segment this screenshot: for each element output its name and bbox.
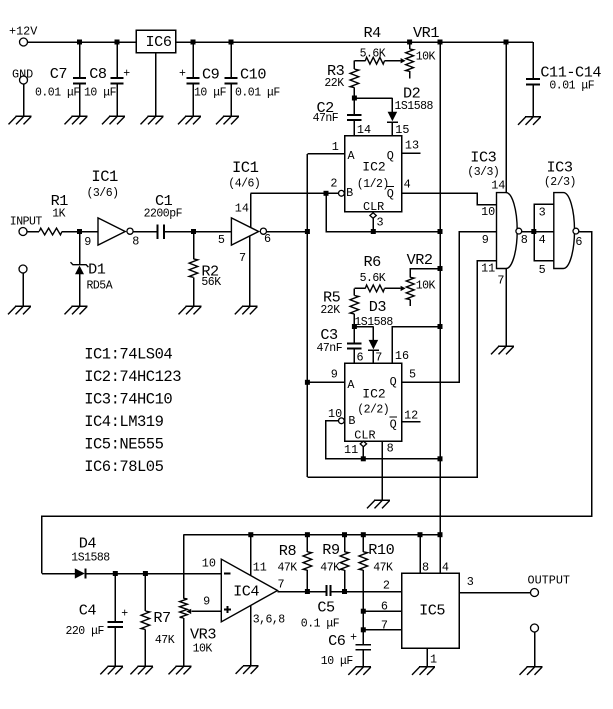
wire +12V rail (IC6 output side) [176,41,534,43]
svg-text:Q: Q [387,149,394,163]
svg-text:6: 6 [575,235,582,249]
svg-text:(2/2): (2/2) [357,403,389,416]
svg-text:RD5A: RD5A [87,280,113,293]
junction high rail/+12V vertical [438,229,443,234]
svg-text:6: 6 [381,600,388,614]
resistor R1 zigzag [39,228,62,235]
wire IC6 ground pin [155,53,157,117]
svg-text:+: + [350,632,357,645]
ground (IC1 pin 7) [235,306,258,314]
svg-text:B: B [346,186,353,200]
wire IC3 pin 7 to ground [505,269,507,347]
svg-text:10: 10 [481,205,495,219]
wire IC5 pin 3 to OUTPUT [459,592,530,594]
svg-text:VR2: VR2 [407,251,433,269]
wire IC5 pin 8 (Vcc) [419,535,421,573]
svg-text:4: 4 [404,178,411,192]
svg-text:22K: 22K [324,77,344,90]
svg-text:2: 2 [330,176,337,190]
svg-text:Q: Q [390,375,397,389]
svg-text:IC2: IC2 [362,387,385,402]
ground (IC4 pins 3,6,8) [236,666,259,674]
junction +12V vertical/top rail [438,40,443,45]
wire INPUT to R1 [27,231,39,233]
svg-text:2: 2 [383,579,390,593]
svg-text:22K: 22K [320,304,340,317]
svg-text:0.01 μF: 0.01 μF [549,80,594,93]
svg-text:13: 13 [405,139,419,153]
terminal +12V [20,38,28,46]
IC3 (3/3) output bubble [516,228,522,234]
wire GND terminal down [23,84,25,116]
junction IC4 pin11/+12V rail [248,532,253,537]
svg-text:(2/3): (2/3) [544,176,576,189]
wire +12V to IC6 input [28,41,136,43]
svg-text:10K: 10K [416,51,436,64]
svg-text:47nF: 47nF [317,342,343,355]
svg-text:C5: C5 [317,599,335,617]
svg-text:C4: C4 [79,602,97,620]
wire B pin 10 tie-high [326,421,440,459]
svg-text:R6: R6 [364,253,382,271]
svg-text:IC1: IC1 [232,159,259,177]
junction C4 node [113,571,118,576]
svg-text:IC1: IC1 [91,168,118,186]
svg-text:A: A [347,378,355,392]
svg-text:IC6:78L05: IC6:78L05 [84,458,163,476]
svg-text:R9: R9 [322,541,340,559]
IC2 pin 2 bubble (B) [339,190,345,196]
svg-text:R10: R10 [368,541,394,559]
ground (C4) [100,666,123,674]
svg-text:IC1:74LS04: IC1:74LS04 [84,345,172,363]
svg-text:10 μF: 10 μF [194,87,227,100]
IC4 input polarity marks [224,573,231,575]
junction C1/R2/IC1 input [191,229,196,234]
svg-text:56K: 56K [201,276,221,289]
svg-text:16: 16 [395,349,409,363]
svg-text:OUTPUT: OUTPUT [528,574,570,588]
svg-text:14: 14 [491,179,505,193]
wire IC4 pins 3,6,8 to ground [250,606,252,666]
wire C1 to IC1 (4/6) input [165,231,231,233]
svg-text:6: 6 [357,350,364,364]
ground (IC6) [141,116,164,124]
terminal INPUT [19,228,27,236]
ground (input terminal) [8,306,31,314]
ground (GND terminal) [9,116,32,124]
capacitor C7 [79,42,81,77]
svg-text:10 μF: 10 μF [84,87,117,100]
svg-text:+: + [121,608,128,621]
IC1 (4/6) output bubble [260,228,266,234]
svg-text:Q: Q [390,418,397,432]
svg-text:D3: D3 [369,298,387,316]
svg-text:9: 9 [203,595,210,609]
svg-text:C7: C7 [50,65,67,83]
svg-text:11: 11 [344,443,358,457]
ground (VR3) [169,666,192,674]
capacitor C8 [116,42,118,77]
svg-text:0.01 μF: 0.01 μF [235,87,280,100]
junction C10/rail [229,40,234,45]
wire D4 cathode to IC4 minus input [86,573,222,575]
junction R10 top/+12V rail [361,532,366,537]
terminal OUTPUT [531,589,539,597]
svg-text:47K: 47K [320,562,340,575]
svg-text:1S1588: 1S1588 [71,551,110,564]
svg-text:15: 15 [395,123,409,137]
IC2 pin 12 stub (Q-bar) [402,421,421,423]
wire +12V bottom rail [184,534,441,536]
junction pin 8/+12V rail [418,532,423,537]
junction CLR/tie-high rail [361,456,366,461]
svg-text:IC2: IC2 [362,160,385,175]
svg-text:3: 3 [539,206,546,220]
wire IC2 pin 8 (GND) [381,441,383,500]
svg-text:4: 4 [442,561,449,575]
svg-text:10K: 10K [193,642,213,655]
wire output ground terminal down [534,632,536,666]
ground (C11-C14) [518,117,541,125]
svg-text:8: 8 [387,442,394,456]
ground (output terminal) [520,667,543,675]
svg-text:IC5:NE555: IC5:NE555 [84,436,163,454]
junction B rail [324,191,329,196]
junction pin 9/trigger vertical [305,380,310,385]
svg-text:2200pF: 2200pF [144,207,183,220]
IC2 pin 11 bubble (CLR) [360,441,366,447]
svg-text:IC3:74HC10: IC3:74HC10 [84,391,172,409]
terminal input ground [19,265,27,273]
nand gate IC3 (3/3) body [497,193,518,269]
junction pin 6/R10 [361,609,366,614]
wire IC4 pin 11 (V+) [250,535,252,576]
svg-text:(1/2): (1/2) [357,178,389,191]
svg-text:D1: D1 [88,261,106,279]
wire trigger vertical (pin1 to pin9 to pin11 rail) [306,154,308,477]
junction R9 bottom [342,589,347,594]
svg-text:47K: 47K [155,634,175,647]
svg-text:12: 12 [404,409,418,423]
svg-text:1S1588: 1S1588 [395,100,434,113]
monostable IC2 (1/2) box [345,136,402,212]
wire R1 to node [62,231,98,233]
comparator IC4 [221,559,277,622]
svg-text:5: 5 [539,263,546,277]
svg-text:INPUT: INPUT [10,216,43,229]
svg-text:1: 1 [430,653,437,667]
svg-text:IC5: IC5 [419,602,445,620]
timer IC5 box [402,573,460,648]
wire input ground terminal down [22,273,24,306]
svg-text:+12V: +12V [9,25,38,39]
ground (D1) [65,306,88,314]
ground (C6) [348,667,371,675]
svg-text:7: 7 [239,251,246,265]
wire IC3 pin 14 (Vcc from +12V rail) [504,40,509,45]
svg-text:IC4: IC4 [233,582,259,600]
svg-text:C9: C9 [202,66,220,84]
junction C7/+12V rail [77,40,82,45]
wire IC1 pin14 / IC2 pin2 rail [251,192,339,194]
svg-text:0.01 μF: 0.01 μF [35,87,80,100]
svg-text:CLR: CLR [363,200,384,214]
ground (R2) [179,306,202,314]
IC2 pin 10 bubble (B) [339,418,345,424]
svg-text:47K: 47K [373,562,393,575]
junction pin 7/C6 [361,627,366,632]
svg-text:9: 9 [482,233,489,247]
svg-text:C6: C6 [328,632,346,650]
svg-text:3,6,8: 3,6,8 [253,614,286,627]
svg-text:47K: 47K [278,562,298,575]
wire IC5 pin 7 [363,629,401,631]
regulator IC6 [136,30,176,53]
svg-text:1K: 1K [52,207,65,220]
junction R9 top/+12V rail [342,532,347,537]
svg-text:1: 1 [332,140,339,154]
svg-text:7: 7 [278,578,285,592]
wire IC5 pin 1 to ground [426,648,428,666]
svg-text:IC4:LM319: IC4:LM319 [84,413,163,431]
svg-text:VR1: VR1 [413,24,439,42]
svg-text:R4: R4 [364,24,382,42]
svg-text:3: 3 [467,575,474,589]
svg-text:(3/6): (3/6) [87,187,119,200]
svg-text:+: + [123,68,130,81]
svg-text:8: 8 [132,234,139,248]
ground (IC2 pin 8) [367,500,390,508]
junction R8 bottom [305,589,310,594]
wire IC3 (2/3) output pin 6 to D4 loop [42,232,592,574]
svg-text:D4: D4 [79,534,97,552]
junction R1/D1/IC1 input [77,229,82,234]
svg-text:+: + [179,68,186,81]
svg-text:7: 7 [497,273,504,287]
nand gate IC3 (2/3) body [554,193,575,269]
svg-text:IC6: IC6 [146,33,172,51]
svg-text:9: 9 [331,368,338,382]
capacitor C11-C14 [532,42,534,78]
ground (R7) [130,666,153,674]
svg-text:14: 14 [235,201,249,215]
junction R5/C3/D3 node [352,324,357,329]
IC2 pin 4 wire (Q-bar to IC3 pin 10) [402,193,497,204]
ground (C8) [102,116,125,124]
ground (C10) [216,116,239,124]
wire C5 to IC5 pin 2 [331,591,401,593]
svg-text:IC3: IC3 [470,149,496,167]
svg-text:CLR: CLR [354,428,375,442]
ground (IC5 pin 1) [412,667,435,675]
junction gate output/input bus [531,229,536,234]
svg-text:7: 7 [381,618,388,632]
IC2 pin 13 stub (Q) [402,152,421,154]
svg-text:5: 5 [218,233,225,247]
wire node to D3 [354,326,373,328]
wire IC2 pin 16 (Vcc) [392,327,440,364]
junction pin16/+12V vertical [438,324,443,329]
junction tie-high rail/+12V vertical [438,456,443,461]
svg-text:10K: 10K [416,280,436,293]
wire IC5 pin 6 [363,610,401,612]
wire IC3 (2/3) input bus pins 3,4,5 [534,204,554,261]
junction R3/C2/D2 node [352,96,357,101]
svg-text:(4/6): (4/6) [228,178,260,191]
wire IC5 pin 4 (reset, from +12V vertical) [439,535,441,573]
IC2 pin 3 bubble (CLR) [370,213,376,219]
capacitor C10 [230,42,232,77]
IC3 (2/3) output bubble [573,228,579,234]
junction pin 4/+12V rail [438,532,443,537]
junction C8/+12V rail [115,40,120,45]
svg-text:11: 11 [253,561,267,575]
svg-text:8: 8 [422,561,429,575]
svg-text:IC2:74HC123: IC2:74HC123 [84,368,181,386]
svg-text:B: B [348,414,355,428]
wire IC1 (4/6) output to node [267,231,308,233]
junction R7 node [143,571,148,576]
svg-text:220 μF: 220 μF [66,625,105,638]
svg-text:14: 14 [357,123,371,137]
wire IC1 (3/6) output to C1 [133,231,157,233]
svg-text:4: 4 [539,233,546,247]
svg-text:10 μF: 10 μF [321,655,354,668]
monostable IC2 (2/2) box [345,363,402,441]
wire CLR pin 11 [362,447,364,459]
svg-text:8: 8 [521,233,528,247]
svg-text:R7: R7 [153,609,170,627]
junction CLR/high rail [371,229,376,234]
wire +12V distribution vertical [439,42,441,535]
svg-text:C8: C8 [89,65,107,83]
wire node to D2 [354,97,392,99]
terminal GND [20,76,28,84]
svg-text:IC3: IC3 [547,158,573,176]
wire IC4 output pin 7 to C5 [278,591,326,593]
ground (IC3 pin 7) [491,346,514,354]
svg-text:5: 5 [409,368,416,382]
svg-text:7: 7 [375,350,382,364]
junction VR2 top/+12V vertical [438,266,443,271]
inverter IC1 (4/6) triangle [231,218,258,245]
ground (C9) [178,116,201,124]
terminal output ground [531,624,539,632]
svg-text:11: 11 [481,262,495,276]
wire CLR pin 3 [372,218,374,231]
svg-text:VR3: VR3 [190,625,216,643]
svg-text:5.6K: 5.6K [360,272,386,285]
svg-text:C10: C10 [240,66,266,84]
IC2 pin 1 wire (A input from inverter) [307,153,344,155]
junction inverter output/pin1/pin9 vertical [305,229,310,234]
svg-text:A: A [348,149,356,163]
IC2 pin 9 wire (A input) [307,381,344,383]
svg-text:9: 9 [84,235,91,249]
capacitor C9 [192,42,194,77]
junction R8 top/+12V rail [305,532,310,537]
svg-text:0.1 μF: 0.1 μF [301,618,340,631]
inverter IC1 (3/6) triangle [98,218,125,245]
IC1 (3/6) output bubble [127,228,133,234]
wire IC3 pin 11 from trigger rail [307,261,496,477]
VR3 wiper arrow to IC4 plus input [192,610,222,612]
svg-text:47nF: 47nF [313,112,339,125]
svg-text:10: 10 [202,557,216,571]
svg-text:3: 3 [377,216,384,230]
wire B/CLR tie-high rail [326,193,440,231]
junction C9/rail [191,40,196,45]
ground (C7) [65,116,88,124]
svg-text:R8: R8 [279,542,297,560]
wire IC3 pin 9 from IC2 pin 5 [402,232,497,383]
wire IC3 (3/3) output pin 8 [522,231,534,233]
svg-text:Q: Q [387,187,394,201]
svg-text:(3/3): (3/3) [467,166,499,179]
